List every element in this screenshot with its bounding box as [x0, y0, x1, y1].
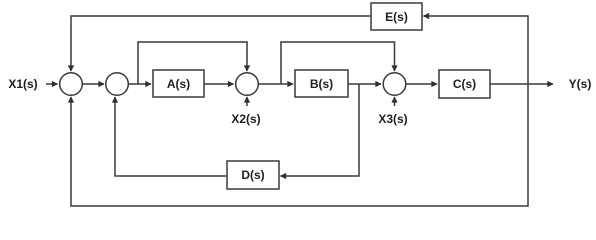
- summing junction S4: [383, 73, 406, 96]
- wire X3 input stub: [394, 97, 396, 106]
- summing junction S2: [106, 73, 129, 96]
- wire S1 to S2: [82, 83, 104, 85]
- block E1 box E(s): [371, 3, 422, 30]
- block B1 box B(s): [295, 70, 348, 97]
- svg-text:X1(s): X1(s): [8, 77, 37, 91]
- wire outer bottom loop to S1 bottom: [71, 84, 528, 206]
- svg-text:Y(s): Y(s): [569, 77, 592, 91]
- svg-text:E(s): E(s): [385, 10, 408, 24]
- svg-text:C(s): C(s): [453, 77, 476, 91]
- wire feedback tap up to E(s): [424, 16, 529, 84]
- block C1 box C(s): [439, 70, 490, 98]
- wire bypass2 S3out to S4 top: [281, 42, 395, 84]
- block D1 box D(s): [227, 161, 279, 189]
- wire X1 input arrow: [46, 83, 58, 85]
- wire D(s) to S2 bottom: [115, 97, 227, 176]
- wire A(s) to S3: [204, 83, 234, 85]
- wire S4 to C(s): [406, 83, 437, 85]
- summing junction S1: [60, 73, 83, 96]
- block A1 box A(s): [153, 70, 204, 97]
- svg-text:X2(s): X2(s): [231, 112, 260, 126]
- wire X2 input stub: [246, 97, 248, 106]
- wire E(s) to S1 top: [71, 16, 371, 71]
- wire S3 to B(s): [258, 83, 293, 85]
- svg-text:A(s): A(s): [167, 77, 190, 91]
- svg-text:X3(s): X3(s): [378, 112, 407, 126]
- wire S2 to A(s): [128, 83, 151, 85]
- wire C(s) to output Y: [490, 83, 553, 85]
- svg-text:B(s): B(s): [310, 77, 333, 91]
- wire bypass1 S2out to S3 top: [138, 42, 247, 84]
- svg-text:D(s): D(s): [241, 168, 264, 182]
- summing junction S3: [236, 73, 259, 96]
- wire B(s) to S4: [348, 83, 381, 85]
- wire tap after B(s) down to D(s): [281, 84, 360, 176]
